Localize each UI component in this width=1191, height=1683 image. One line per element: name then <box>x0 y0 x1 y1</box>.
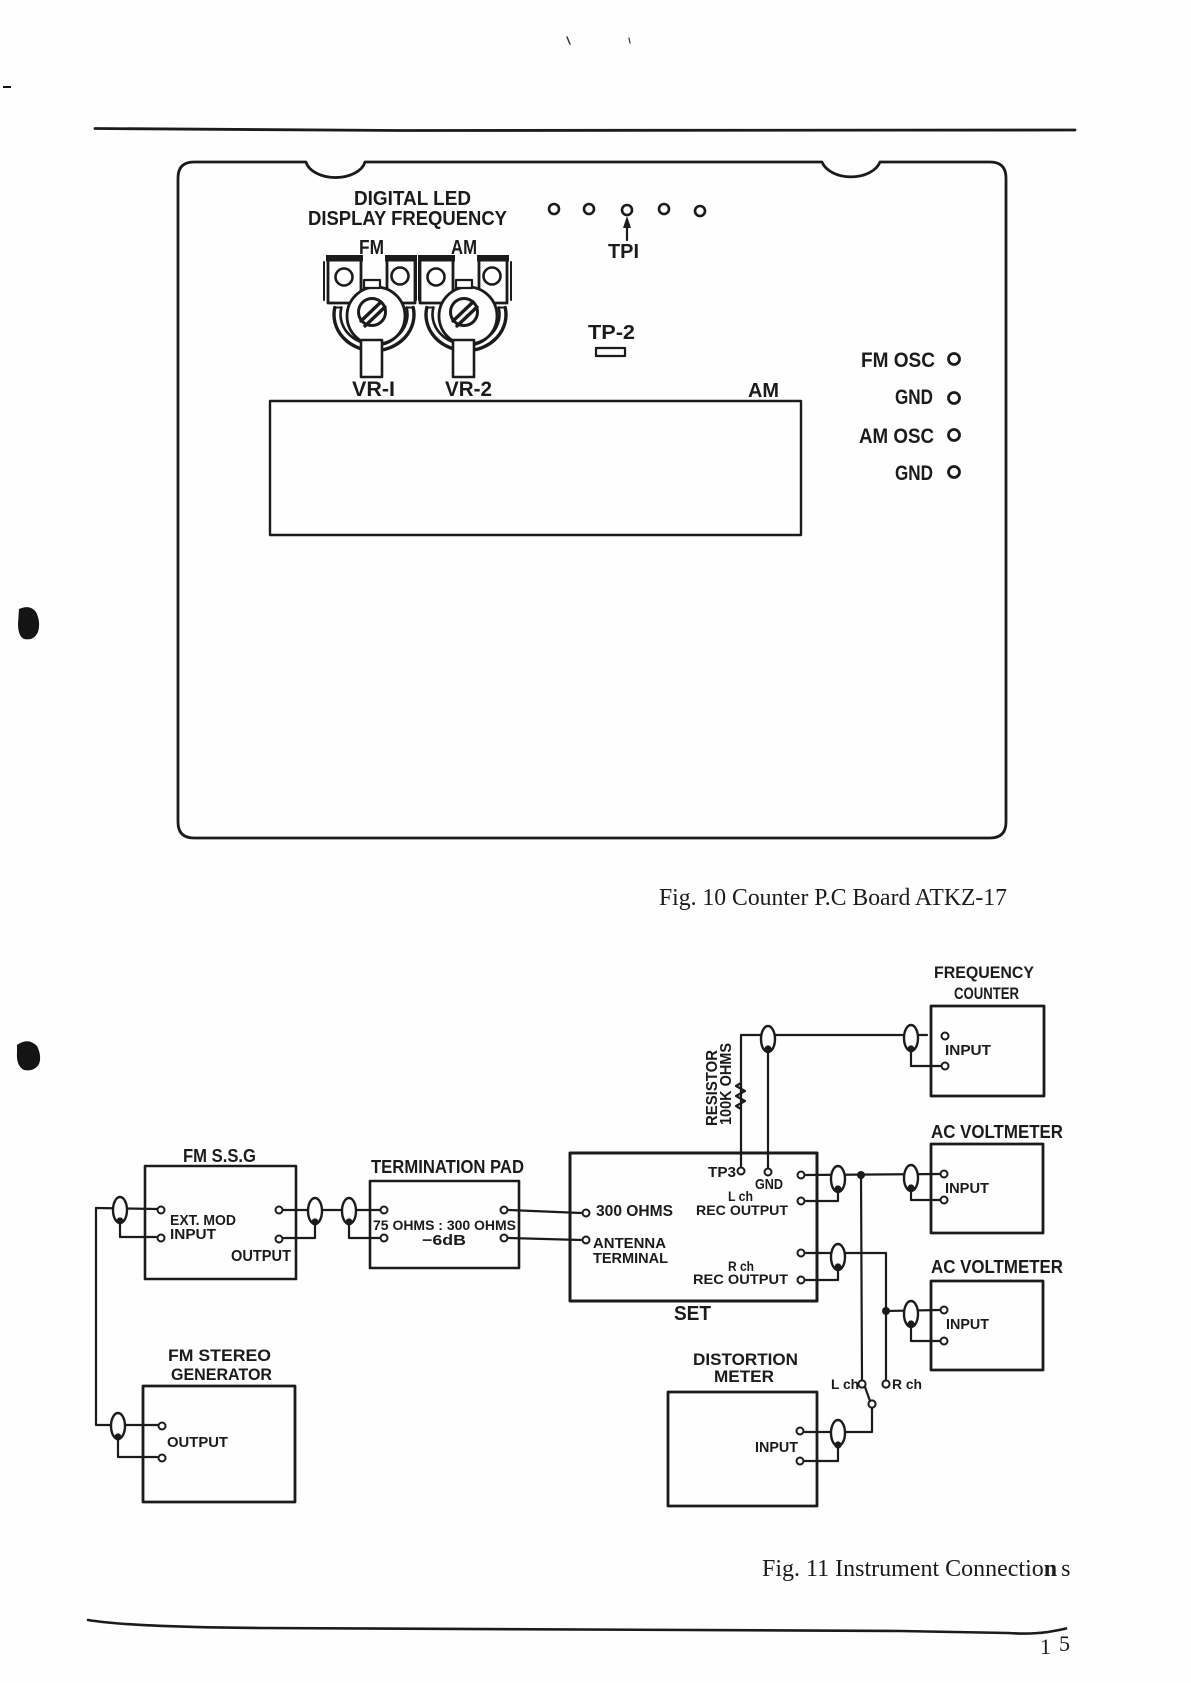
cable connector (AC voltmeter 2 input) <box>904 1301 918 1327</box>
wire: shield branch to Lch rec output <box>806 1189 838 1201</box>
AC VOLTMETER 2 box <box>931 1281 1043 1370</box>
wire: SET GND out to AC voltmeter 1 <box>806 1174 940 1175</box>
wire: shield branch to meter lower input <box>805 1445 838 1461</box>
FM S.S.G box <box>145 1166 296 1279</box>
svg-text:TP3: TP3 <box>708 1164 736 1181</box>
svg-text:DIGITAL LED: DIGITAL LED <box>354 188 471 210</box>
svg-text:TPI: TPI <box>608 241 639 263</box>
header rule <box>95 129 1075 131</box>
svg-text:300 OHMS: 300 OHMS <box>596 1203 673 1220</box>
FM S.S.G EXT.MOD INPUT terminals <box>158 1207 165 1214</box>
SET ANTENNA TERMINAL terminal <box>583 1237 590 1244</box>
svg-text:AC VOLTMETER: AC VOLTMETER <box>931 1122 1063 1142</box>
wire: shield branch to counter lower input <box>911 1049 940 1066</box>
svg-text:VR-I: VR-I <box>352 378 395 401</box>
svg-text:REC OUTPUT: REC OUTPUT <box>696 1202 788 1218</box>
junction: Rch to voltmeter 2 <box>882 1307 890 1315</box>
svg-text:VR-2: VR-2 <box>445 378 492 401</box>
svg-text:INPUT: INPUT <box>170 1226 216 1243</box>
svg-text:TERMINAL: TERMINAL <box>593 1250 668 1267</box>
svg-text:L ch: L ch <box>831 1376 859 1392</box>
cable connector (FM stereo generator output) <box>111 1413 125 1439</box>
wire: connector shield to lower input <box>120 1221 156 1237</box>
wire: pad to SET 300 ohms <box>509 1210 581 1213</box>
wire: pad to SET antenna <box>509 1238 581 1240</box>
cable connector (FM S.S.G output) <box>308 1198 322 1224</box>
svg-text:GENERATOR: GENERATOR <box>171 1365 272 1384</box>
wire: shield branch to pad lower input <box>349 1222 379 1238</box>
PC board outline ATKZ-17 <box>178 162 1006 838</box>
AC VOLTMETER 1 box <box>931 1144 1043 1233</box>
svg-text:INPUT: INPUT <box>945 1180 989 1197</box>
svg-text:TERMINATION PAD: TERMINATION PAD <box>371 1157 524 1177</box>
DISTORTION METER box <box>668 1392 817 1506</box>
AC voltmeter 2 input terminals <box>941 1307 948 1314</box>
SET GND terminal <box>765 1169 772 1176</box>
selector switch Lch/Rch <box>858 1380 865 1387</box>
wire: FM S.S.G output to termination pad <box>283 1209 380 1211</box>
svg-text:R ch: R ch <box>892 1376 922 1392</box>
svg-text:OUTPUT: OUTPUT <box>167 1434 228 1451</box>
wire: left trunk to FM S.S.G input <box>96 1208 157 1209</box>
wire: SET Rch out to AC voltmeter 2 <box>806 1253 886 1379</box>
wire: shield branch to voltmeter 1 lower input <box>911 1188 940 1200</box>
TERMINATION PAD box <box>370 1181 519 1268</box>
svg-text:FM STEREO: FM STEREO <box>168 1346 271 1365</box>
cable connector (distortion meter input) <box>831 1420 845 1446</box>
cable connector (termination pad input) <box>342 1198 356 1224</box>
svg-text:AC VOLTMETER: AC VOLTMETER <box>931 1257 1063 1277</box>
wire: junction down to Lch switch contact <box>861 1175 862 1379</box>
cable connector (Lch rec output) <box>831 1166 845 1192</box>
wire: TP3 riser <box>741 1035 927 1166</box>
svg-text:GND: GND <box>895 386 933 409</box>
FM S.S.G OUTPUT terminals <box>276 1207 283 1214</box>
svg-text:DISPLAY FREQUENCY: DISPLAY FREQUENCY <box>308 208 508 230</box>
cable connector (GND riser junction) <box>761 1026 775 1052</box>
svg-text:SET: SET <box>674 1303 711 1325</box>
svg-text:INPUT: INPUT <box>946 1316 989 1333</box>
SET 300 OHMS terminal <box>583 1210 590 1217</box>
FREQUENCY COUNTER box <box>931 1006 1044 1096</box>
svg-text:AM OSC: AM OSC <box>859 425 934 448</box>
scan artifacts <box>3 37 630 1070</box>
svg-text:Fig. 10 Counter P.C Board ATKZ: Fig. 10 Counter P.C Board ATKZ-17 <box>659 885 1007 911</box>
cable connector (Rch rec output) <box>831 1244 845 1270</box>
svg-text:AM: AM <box>748 380 779 402</box>
label: 75 OHMS : 300 OHMS / -6dB <box>373 1217 516 1249</box>
junction: Lch to voltmeter/switch <box>857 1171 865 1179</box>
resistor R 100K OHMS <box>736 1083 745 1109</box>
SET box <box>570 1153 817 1301</box>
test point TP1 arrow <box>623 216 631 240</box>
wire: switch pole to distortion meter <box>805 1408 872 1432</box>
test pad row (5 holes) <box>549 204 705 216</box>
svg-text:100K OHMS: 100K OHMS <box>718 1043 735 1125</box>
svg-text:COUNTER: COUNTER <box>954 984 1019 1003</box>
svg-text:FM OSC: FM OSC <box>861 349 935 372</box>
svg-text:OUTPUT: OUTPUT <box>231 1248 291 1265</box>
svg-text:REC OUTPUT: REC OUTPUT <box>693 1271 788 1287</box>
svg-text:GND: GND <box>895 462 933 485</box>
wire: GND riser <box>767 1049 769 1168</box>
label: DIGITAL LED DISPLAY FREQUENCY <box>308 188 508 230</box>
svg-text:TP-2: TP-2 <box>588 322 635 344</box>
svg-text:Fig. 11 Instrument Connections: Fig. 11 Instrument Connections <box>762 1556 1070 1582</box>
svg-text:METER: METER <box>714 1367 774 1386</box>
distortion meter input terminals <box>797 1428 804 1435</box>
footer rule <box>88 1620 1066 1634</box>
wire: shield branch to generator lower output <box>118 1437 157 1457</box>
svg-text:INPUT: INPUT <box>755 1439 798 1456</box>
svg-text:INPUT: INPUT <box>945 1042 991 1059</box>
cable connector at FM S.S.G input <box>113 1197 127 1223</box>
SET TP3 terminal <box>738 1168 745 1175</box>
termination pad terminals <box>381 1207 388 1214</box>
cable connector (AC voltmeter 1 input) <box>904 1165 918 1191</box>
svg-text:FM S.S.G: FM S.S.G <box>183 1146 256 1166</box>
wire: junction to voltmeter 2 input <box>886 1310 940 1311</box>
frequency counter input terminals <box>942 1033 949 1040</box>
svg-text:GND: GND <box>755 1176 783 1193</box>
trimmer potentiometer VR-1 <box>324 255 419 377</box>
trimmer potentiometer VR-2 <box>416 255 511 377</box>
svg-text:−6dB: −6dB <box>422 1232 466 1249</box>
cable connector (frequency counter input) <box>904 1025 918 1051</box>
svg-text:FREQUENCY: FREQUENCY <box>934 963 1035 982</box>
wire: shield branch to voltmeter 2 lower input <box>911 1324 940 1341</box>
SET Rch REC OUTPUT terminals <box>798 1250 805 1257</box>
AC voltmeter 1 input terminals <box>941 1171 948 1178</box>
display window rectangle <box>270 401 801 535</box>
SET Lch REC OUTPUT terminals <box>798 1172 805 1179</box>
svg-text:75 OHMS : 300 OHMS: 75 OHMS : 300 OHMS <box>373 1217 516 1233</box>
FM STEREO GENERATOR box <box>143 1386 295 1502</box>
wire: trunk to FM stereo generator <box>96 1424 158 1425</box>
wire: shield branch to FM S.S.G lower output <box>284 1222 315 1238</box>
wire: shield branch to Rch rec output <box>806 1267 838 1280</box>
FM stereo generator output terminals <box>159 1423 166 1430</box>
